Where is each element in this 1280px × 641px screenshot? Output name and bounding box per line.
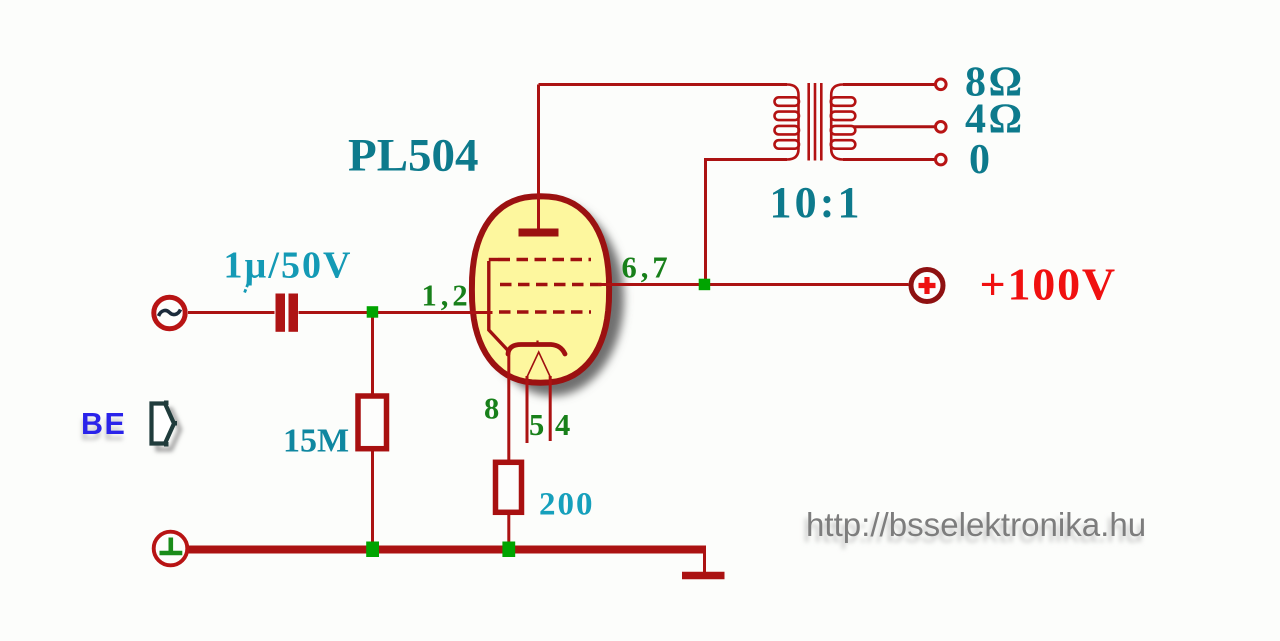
svg-text:+100V: +100V (980, 259, 1117, 310)
svg-text:6,7: 6,7 (622, 251, 672, 285)
svg-text:1,2: 1,2 (422, 279, 472, 313)
svg-text:1µ/50V: 1µ/50V (224, 245, 353, 287)
svg-text:PL504: PL504 (348, 130, 479, 182)
svg-text:5: 5 (529, 408, 548, 442)
svg-text:10:1: 10:1 (770, 178, 863, 227)
svg-text:http://bsselektronika.hu: http://bsselektronika.hu (806, 507, 1146, 544)
svg-text:0: 0 (969, 137, 990, 183)
svg-text:4: 4 (555, 408, 574, 442)
svg-text:4Ω: 4Ω (965, 97, 1025, 143)
svg-text:200: 200 (539, 487, 595, 523)
svg-text:15M: 15M (283, 423, 349, 460)
svg-text:8: 8 (484, 392, 503, 426)
svg-text:BE: BE (81, 407, 126, 441)
